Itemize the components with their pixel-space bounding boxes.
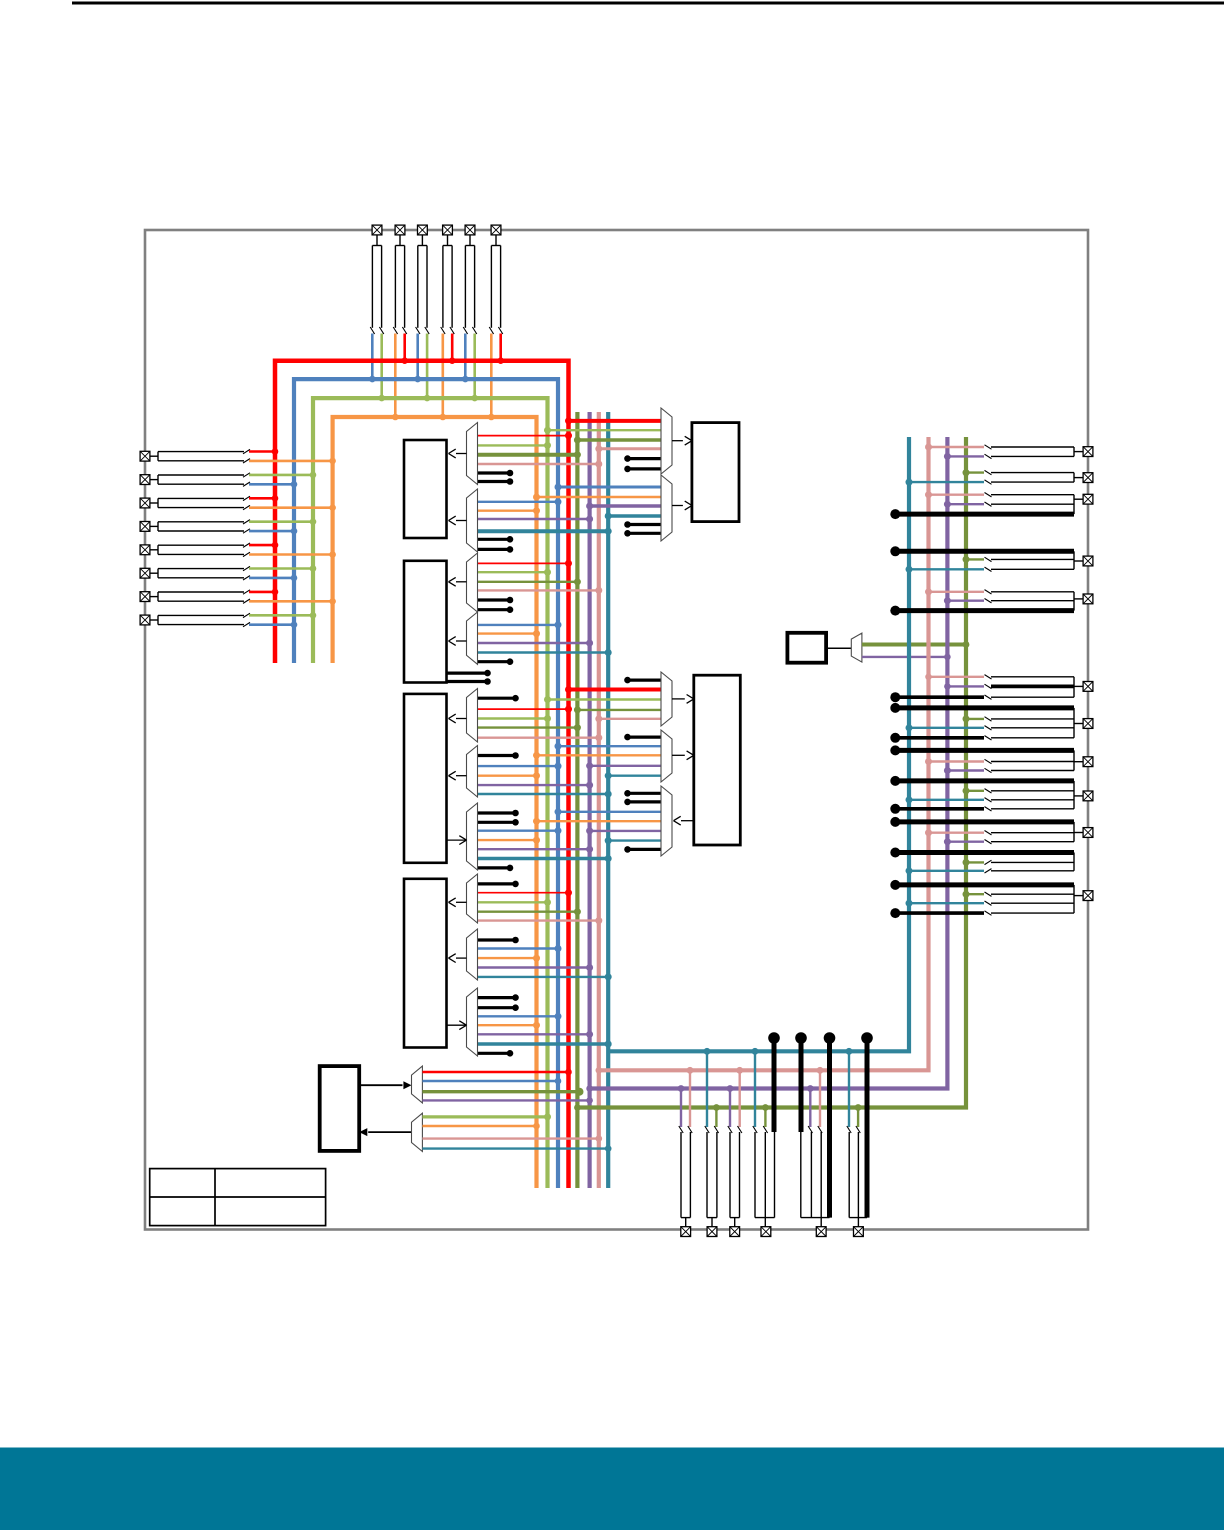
wires from pad L2 to buses	[249, 472, 316, 488]
pad L6 with pin buffer	[140, 566, 250, 580]
small box SB	[787, 633, 826, 663]
wires from pad T6 to buses	[488, 334, 504, 421]
mux RM5	[661, 786, 672, 856]
pad R9	[1083, 791, 1093, 801]
pin buffer RX (no pad)	[906, 853, 1075, 875]
thick black wire A2	[890, 546, 1074, 556]
mux RM1 arrow	[672, 436, 692, 445]
thick black wire A4	[890, 703, 1074, 713]
pad L2 with pin buffer	[140, 473, 250, 487]
teal drop 1	[704, 1048, 711, 1133]
mux RM3 arrow	[672, 695, 694, 704]
pink right bus	[596, 437, 929, 1074]
pin buffer BP3	[730, 1132, 740, 1227]
pad R1	[1083, 447, 1093, 457]
mux L2 input lines	[478, 498, 612, 552]
orange bus	[333, 417, 537, 1188]
mux RM2 arrow	[672, 501, 692, 510]
mux L10	[467, 988, 478, 1056]
diagram frame	[145, 230, 1088, 1230]
purple drop 2	[727, 1085, 734, 1133]
olive drop 2	[762, 1104, 769, 1133]
mux L9 input lines	[478, 937, 612, 981]
pin buffer R6	[890, 674, 1083, 703]
mux L7 input lines	[478, 810, 612, 872]
mux L10 input lines	[478, 994, 612, 1056]
pad R10	[1083, 828, 1093, 838]
pad BP5	[816, 1227, 826, 1237]
pink bus	[597, 412, 601, 1188]
pad R7	[1083, 719, 1093, 729]
mux RM3	[661, 672, 672, 726]
pad R11	[1083, 891, 1093, 901]
pink drop 1	[687, 1067, 694, 1133]
purple drop 3	[807, 1085, 814, 1133]
pink drop 3	[817, 1067, 824, 1133]
mux L4 input lines	[478, 621, 612, 665]
mux RM4 input lines	[533, 734, 661, 779]
pin buffer R10	[925, 822, 1083, 845]
thick black wire A5	[890, 745, 1074, 755]
mux L9	[467, 929, 478, 980]
teal drop 3	[846, 1048, 853, 1133]
purple drop 1	[678, 1085, 685, 1133]
pad T2 with pin buffer	[393, 225, 407, 334]
pad R4	[1083, 556, 1093, 566]
mux L1 input lines	[478, 432, 603, 485]
mux L9 arrow	[449, 954, 467, 963]
mux RM1 input lines	[544, 417, 661, 472]
mux RM5 arrow	[674, 816, 694, 825]
wires from pad T1 to buses	[369, 334, 385, 402]
revision table	[150, 1169, 326, 1226]
wires from pad L7 to buses	[249, 589, 336, 605]
mux L1	[467, 423, 478, 485]
mux RM4	[661, 730, 672, 782]
mux RM1	[661, 408, 672, 474]
pin buffer BP1	[681, 1132, 690, 1227]
pad L8 with pin buffer	[140, 613, 250, 627]
mux L8	[467, 874, 478, 923]
pad BP1	[681, 1227, 691, 1237]
wire SB to mux SM	[826, 647, 851, 649]
block RB2	[694, 675, 741, 845]
pin buffer R4	[906, 551, 1084, 573]
purple bus	[587, 412, 591, 1188]
wires from pad L1 to buses	[249, 448, 336, 464]
wires from pad L8 to buses	[249, 612, 316, 628]
pad BP6	[854, 1227, 864, 1237]
wires from pad T3 to buses	[414, 334, 430, 402]
pin buffer R9	[890, 781, 1083, 814]
mux L5 input lines	[478, 695, 603, 741]
wires from pad T2 to buses	[392, 334, 408, 421]
mux L4 arrow	[449, 637, 467, 646]
pad L5 with pin buffer	[140, 543, 250, 557]
mux RM3 input lines	[544, 677, 661, 723]
olive bus	[575, 412, 579, 1188]
pad R5	[1083, 594, 1093, 604]
pin buffer R5	[925, 588, 1083, 610]
pad BP3	[730, 1227, 740, 1237]
pink drop 2	[736, 1067, 743, 1133]
wires from pad L6 to buses	[249, 565, 316, 581]
thick black wire A6	[890, 776, 1074, 786]
top rule	[72, 2, 1224, 5]
mux L8 input lines	[478, 881, 603, 924]
thick black wire A7	[890, 817, 1074, 827]
pin buffer R1	[925, 444, 1083, 460]
pad BP2	[707, 1227, 717, 1237]
pin buffer R7	[890, 708, 1083, 743]
purple right bus	[586, 437, 947, 1092]
pad R3	[1083, 494, 1093, 504]
pin buffer R11	[890, 885, 1083, 918]
block RB1	[692, 423, 739, 522]
mux RM2	[661, 475, 672, 541]
pad L4 with pin buffer	[140, 520, 250, 534]
thick black vertical V4	[861, 1032, 873, 1217]
pad L7 with pin buffer	[140, 590, 250, 604]
pin buffer R8	[925, 750, 1083, 774]
red bus	[275, 361, 569, 1188]
wires from pad T4 to buses	[440, 334, 456, 421]
mux L3	[467, 553, 478, 612]
pad T5 with pin buffer	[463, 225, 477, 334]
pin buffer BP4	[755, 1132, 775, 1227]
mux L3 arrow	[449, 577, 467, 586]
mux L2	[467, 489, 478, 552]
pad L3 with pin buffer	[140, 496, 250, 510]
mux L7	[467, 803, 478, 870]
pad R2	[1083, 473, 1093, 483]
blue bus	[294, 379, 558, 1188]
mux RM5 input lines	[533, 790, 661, 853]
wires from pad L3 to buses	[249, 495, 336, 511]
teal right bus	[605, 437, 909, 1051]
pin buffer R3	[925, 491, 1083, 514]
mux MB1	[412, 1066, 423, 1103]
mux L2 arrow	[449, 516, 467, 525]
bottom band	[0, 1448, 1224, 1531]
block B2 terminator stub 1	[447, 670, 491, 677]
purple wire SM to purple right bus	[862, 654, 951, 661]
mux L8 arrow	[449, 898, 467, 907]
mux L5	[467, 689, 478, 743]
wires from pad L4 to buses	[249, 518, 316, 534]
mux L10 arrow	[447, 1021, 467, 1030]
teal drop 2	[752, 1048, 759, 1133]
block B2	[404, 561, 447, 683]
block B2 terminator stub 2	[447, 678, 491, 685]
pad R8	[1083, 757, 1093, 767]
thick black wire A9	[890, 880, 1074, 890]
wires from pad L5 to buses	[249, 542, 336, 558]
teal bus	[606, 412, 610, 1188]
pin buffer BP6	[849, 1132, 867, 1227]
olive wire SM to olive right bus	[862, 641, 969, 648]
wires from pad T5 to buses	[462, 334, 478, 402]
arrow BL to mux MB1	[359, 1081, 411, 1089]
mux L3 input lines	[478, 560, 603, 613]
pin buffer BP5	[801, 1132, 830, 1227]
mux SM	[851, 633, 862, 662]
pad T1 with pin buffer	[370, 225, 384, 334]
olive drop 3	[855, 1104, 862, 1133]
olive drop 1	[713, 1104, 720, 1133]
arrow mux MB2 to BL	[359, 1128, 411, 1136]
pad R6	[1083, 682, 1093, 692]
block B4	[404, 879, 447, 1048]
green bus	[313, 398, 548, 1188]
box BL	[320, 1066, 360, 1151]
mux L4	[467, 612, 478, 664]
thick black wire A1	[890, 509, 1074, 519]
pad BP4	[761, 1227, 771, 1237]
mux MB1 output wires to buses	[422, 1069, 592, 1104]
olive right bus	[574, 437, 966, 1111]
mux MB2	[412, 1113, 423, 1151]
mux L5 arrow	[449, 714, 467, 723]
mux MB2 input wires from buses	[422, 1113, 611, 1151]
pad T3 with pin buffer	[416, 225, 430, 334]
mux L1 arrow	[449, 449, 467, 458]
thick black vertical V2	[795, 1032, 807, 1132]
pin buffer BP2	[707, 1132, 717, 1227]
thick black wire A8	[890, 848, 1074, 858]
mux L6 arrow	[449, 771, 467, 780]
block B1	[404, 440, 447, 538]
pad T4 with pin buffer	[441, 225, 455, 334]
thick black vertical V3	[824, 1032, 836, 1217]
thick black wire A3	[890, 606, 1074, 616]
mux RM4 arrow	[672, 751, 694, 760]
mux L7 arrow	[447, 836, 467, 845]
pin buffer R2	[906, 469, 1084, 486]
block B3	[404, 694, 447, 863]
mux L6 input lines	[478, 752, 612, 797]
thick black vertical V1	[768, 1032, 780, 1132]
pad L1 with pin buffer	[140, 449, 250, 463]
mux RM2 input lines	[533, 484, 661, 537]
mux L6	[467, 746, 478, 798]
pad T6 with pin buffer	[489, 225, 503, 334]
